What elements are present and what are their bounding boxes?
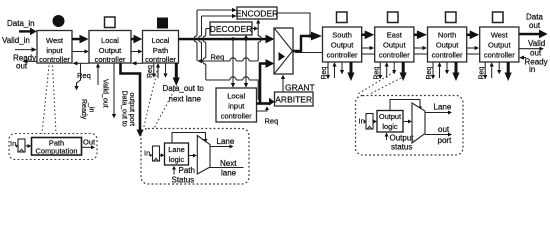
svg-text:status: status [391,142,412,151]
wire Req down line under output controller [431,62,435,79]
svg-text:Lane: Lane [168,145,184,154]
wire vertical net v201 with hop over bus, to ENCODER input 2 [198,14,236,61]
block ARBITER [275,92,314,106]
wire Ready in arrow [519,56,526,60]
callout dotted lines Local Path controller to inset2 [144,67,177,129]
node out port label (inset3) [438,125,453,145]
svg-text:West: West [491,31,509,40]
wire up arrow into output controller [437,62,441,78]
wire thick down arrow under output controller [347,62,354,81]
svg-text:Valid_in: Valid_in [2,36,30,45]
wire thick down arrow under output controller [400,62,407,81]
svg-text:controller: controller [379,51,410,60]
svg-text:controller: controller [39,55,70,64]
wire small down arrow under Local Path [163,63,167,78]
svg-text:next lane: next lane [169,95,202,104]
wire thin arrow Local Output -> Local Path [131,49,142,53]
wire Data_out thick arrow to output port [121,63,144,137]
svg-text:South: South [332,31,352,40]
wire Lane logic loop to mux top (inset2) [172,133,208,144]
wire register to Lane logic arrow [160,153,165,157]
wire main data bus to crossbar [179,35,275,44]
block West Output controller [480,27,519,62]
block Local Path controller [143,31,179,65]
block ENCODER [236,7,279,19]
svg-text:out: out [438,125,450,134]
svg-text:controller: controller [484,51,515,60]
node Ready_in rotated label [80,99,95,120]
block DECODER [210,22,253,35]
flip-flop register (inset2) [150,146,160,161]
block North Output controller [428,27,467,62]
node Data_out to output port rotated label [121,91,136,127]
wire bottom line between output controllers [414,53,428,55]
node status circle (filled) above West input controller [53,15,65,27]
inset dashed box Output logic [356,96,464,156]
wire Out arrow (inset1) [82,145,96,149]
svg-text:in: in [529,65,535,74]
node status square (filled) above Local Path controller [157,18,168,29]
wire ENCODER output to data bus junction [277,13,312,38]
svg-text:Output: Output [383,41,406,50]
svg-text:Req: Req [211,52,225,61]
wire crossbar output to South Output controller (thick) [293,32,322,51]
wire Req down from Local Output controller [74,63,80,90]
svg-text:GRANT: GRANT [285,83,315,93]
mux trapezoid (inset2) [197,136,210,175]
wire horizontal line y80 with hops [206,77,258,100]
wire register to Path Computation arrow [25,144,31,148]
inset dashed box Lane logic [141,129,249,185]
wire Valid_in arrow [15,47,37,52]
wire GRANT select line ARBITER to mux [281,75,285,92]
svg-text:ENCODER: ENCODER [236,8,279,18]
callout dotted lines West input controller to inset [42,66,56,134]
wire data thick arrow between output controllers [362,30,375,39]
wire Req horizontal line with hops [197,58,258,63]
wire vertical net v197 with hop over bus, to ENCODER input 1 [194,8,237,61]
node Output status label (inset3) [390,134,415,152]
svg-text:Output: Output [379,112,401,121]
wire bottom line between output controllers [467,53,480,55]
wire Valid_out down arrow from Local Output controller [112,63,116,118]
svg-text:North: North [438,31,456,40]
mux trapezoid (inset3) [412,103,425,143]
wire small down arrow under output controller [445,62,449,74]
wire thin back arrow Local Output -> West input [72,61,89,65]
wire Lane output arrow (inset3) [425,111,452,115]
node Next lane label (inset2) [220,159,237,178]
wire up arrow into output controller [332,62,336,78]
svg-text:controller: controller [95,55,126,64]
wire Req down line under output controller [483,62,487,79]
wire data thick arrow West input -> Local Output [72,35,89,44]
wire Req down line under output controller [378,62,382,79]
node status square above East Output controller [388,12,399,23]
wire thin arrow between output controllers [467,46,479,50]
svg-text:lane: lane [221,169,237,178]
svg-text:Lane: Lane [217,137,235,146]
svg-text:out: out [529,21,541,30]
node Data_out to next lane label [163,84,205,104]
callout dotted lines East Output controller to inset3 [357,72,401,95]
node Valid out label [528,39,545,58]
svg-text:Valid: Valid [528,39,545,48]
svg-text:controller: controller [221,111,252,120]
wire v258 ENCODER bottom feedback with hop over bus [256,19,261,61]
node status square (open) above Local Output controller [105,17,116,28]
node Data out label [526,13,543,31]
wire Lane output arrow (inset2) [210,145,234,149]
wire small down arrow under output controller [392,62,396,74]
block Output logic [377,111,403,133]
flip-flop register (inset1) [16,139,26,152]
svg-text:input: input [228,101,245,110]
wire Next lane output line (inset2) [210,167,244,169]
svg-text:East: East [387,31,403,40]
wire bottom line between output controllers [362,53,375,55]
wire small down arrow under output controller [497,62,501,74]
wire Local input controller thick output to ARBITER [257,98,275,106]
node status square above North Output controller [446,12,457,23]
wire Path Status up arrow (inset2) [172,166,176,175]
svg-text:In: In [10,139,16,148]
wire thin arrow West input -> Local Output [72,49,89,53]
svg-text:Req: Req [265,117,279,126]
svg-text:Output: Output [331,41,354,50]
wire vertical net v205 with hop over bus, to DECODER input [203,29,210,81]
wire Req down line under output controller [326,62,330,79]
wire Output logic loop to mux top (inset3) [390,100,422,111]
svg-text:input: input [46,46,63,55]
svg-text:Valid_out: Valid_out [102,79,109,108]
block Path Computation [32,138,82,156]
svg-text:Status: Status [172,176,195,185]
wire v246 DECODER bottom to Local input controller top [244,35,248,88]
svg-text:Output: Output [488,41,511,50]
wire out port output arrow (inset3) [425,133,452,137]
svg-text:DECODER: DECODER [210,24,253,34]
wire thick down arrow under output controller [452,62,459,81]
svg-text:Data_out to: Data_out to [121,91,128,127]
svg-text:ARBITER: ARBITER [275,95,312,105]
svg-text:controller: controller [327,51,358,60]
flip-flop register (inset3) [364,114,374,130]
svg-text:In: In [144,148,150,157]
svg-text:Data_in: Data_in [7,19,35,28]
wire data thick arrow Local Output -> Local Path [131,35,142,44]
wire up arrow into output controller [490,62,494,78]
wire up arrow into Local Path controller [156,63,160,78]
svg-text:Output: Output [99,46,122,55]
svg-text:controller: controller [432,51,463,60]
block South Output controller [323,27,362,62]
wire Req down line under Local Path [152,63,156,78]
svg-text:Req: Req [77,71,91,80]
svg-text:Out: Out [83,138,96,147]
svg-text:Local: Local [227,91,245,100]
wire Req from Local input controller to ARBITER bottom [257,106,270,111]
wire small down arrow under output controller [340,62,344,74]
wire Ready_out arrow [22,59,36,63]
svg-text:Path: Path [179,166,195,175]
svg-text:Local: Local [152,36,170,45]
svg-text:Output: Output [436,41,459,50]
block Local input controller [216,88,257,122]
wire data thick arrow between output controllers [414,30,427,39]
wire Data_in arrow [19,28,37,36]
wire Output logic output arrow to mux (inset3) [403,120,412,124]
wire up arrow into output controller [385,62,389,78]
svg-text:In: In [359,116,365,125]
wire thick down arrow under output controller [505,62,512,81]
svg-text:West: West [46,36,64,45]
wire Data out thick arrow [519,30,548,39]
wire Local input controller thick output to mux lower input [260,59,274,103]
svg-text:Ready: Ready [525,57,548,66]
wire thin line to South Output controller lower input [295,52,322,54]
wire data thick arrow between output controllers [467,30,480,39]
svg-text:Local: Local [101,36,119,45]
svg-text:Path: Path [153,46,168,55]
wire thin arrow between output controllers [362,46,374,50]
wire Output status up arrow (inset3) [385,133,389,141]
wire Ready_in up arrow into Local Output controller [96,63,100,85]
block Lane logic [165,143,189,165]
mux crossbar switch [274,28,293,74]
svg-text:controller: controller [145,55,176,64]
svg-text:logic: logic [169,155,185,164]
svg-text:logic: logic [382,122,398,131]
inset dashed box Path Computation [9,134,97,160]
svg-text:port: port [438,136,453,145]
svg-text:Next: Next [220,159,237,168]
node status square above West Output controller [493,12,504,23]
node Valid_out rotated label [102,79,109,108]
wire thin arrow between output controllers [414,46,427,50]
node Ready_out label [13,54,41,71]
node status square above South Output controller [337,12,348,23]
wire v233 bus to Local input controller top [231,37,235,87]
svg-text:Ready: Ready [80,99,87,120]
svg-text:Data_out to: Data_out to [163,84,205,93]
svg-text:output port: output port [128,93,135,127]
wire register to Output logic arrow [373,120,377,124]
node Ready in label [525,57,548,74]
wire DECODER output arrow to v258 [252,26,258,30]
block West input controller [37,31,72,65]
svg-text:Output: Output [390,134,415,143]
svg-text:Computation: Computation [36,147,78,156]
wire Data_out to next lane thick arrow [173,63,180,86]
node Path Status label (inset2) [172,166,195,185]
wire thin back arrow Local Path -> Local Output [131,61,142,65]
wire Valid out thin arrow [519,47,544,51]
block East Output controller [375,27,414,62]
block Local Output controller [89,31,131,65]
svg-text:Lane: Lane [434,103,452,112]
svg-text:_in: _in [88,102,95,112]
wire Lane logic output arrow to mux (inset2) [189,154,197,158]
